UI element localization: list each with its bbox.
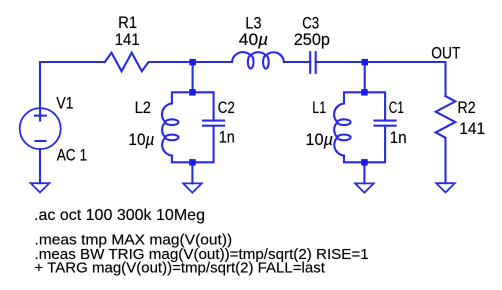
svg-text:OUT: OUT [431,44,460,62]
svg-text:+ TARG mag(V(out))=tmp/sqrt(2): + TARG mag(V(out))=tmp/sqrt(2) FALL=last [35,259,326,276]
svg-text:C3: C3 [302,15,319,33]
svg-text:V1: V1 [56,95,73,113]
svg-text:AC 1: AC 1 [57,147,87,165]
svg-text:10µ: 10µ [305,131,333,149]
svg-text:1n: 1n [390,129,407,147]
svg-text:C1: C1 [389,99,404,117]
svg-text:R1: R1 [118,14,137,32]
svg-text:L1: L1 [312,99,326,117]
svg-text:L3: L3 [245,15,261,33]
svg-text:L2: L2 [135,99,151,117]
svg-text:10µ: 10µ [128,131,154,149]
svg-text:.ac oct 100 300k 10Meg: .ac oct 100 300k 10Meg [34,207,205,224]
svg-text:40µ: 40µ [239,31,268,49]
svg-text:141: 141 [115,31,140,49]
svg-text:250p: 250p [294,31,330,49]
svg-text:C2: C2 [218,99,235,117]
svg-text:R2: R2 [458,99,476,117]
svg-text:1n: 1n [219,128,235,146]
svg-text:141: 141 [459,120,485,138]
